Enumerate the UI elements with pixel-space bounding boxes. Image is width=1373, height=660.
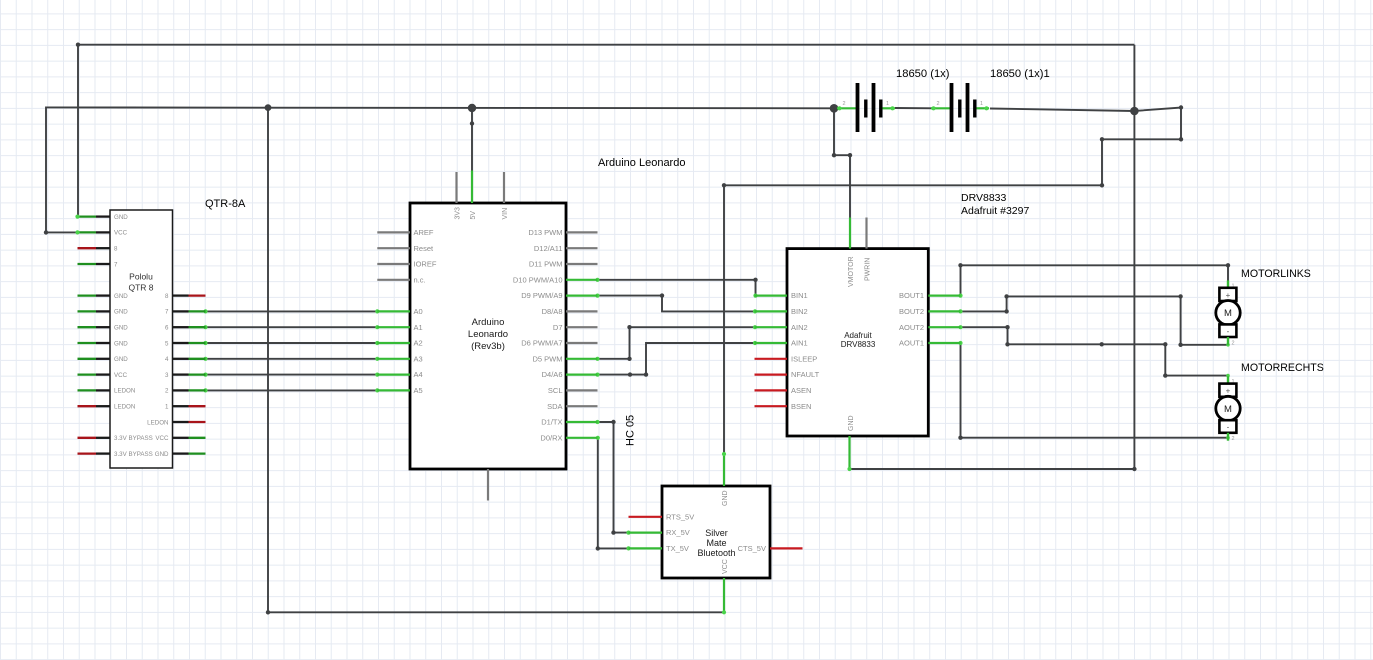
wire QTR pin 4 to Arduino A3 xyxy=(206,358,378,360)
pin BSEN (DRV left) xyxy=(755,402,812,411)
wire GND top horizontal xyxy=(78,44,1134,46)
svg-text:2: 2 xyxy=(1232,340,1235,346)
wire BOUT2 to motor left pin2 xyxy=(961,296,1229,344)
wire D4 to DRV AIN1 xyxy=(598,343,756,375)
svg-text:D0/RX: D0/RX xyxy=(540,433,562,442)
svg-text:SDA: SDA xyxy=(547,402,562,411)
svg-text:BIN2: BIN2 xyxy=(791,307,808,316)
svg-text:Adafruit: Adafruit xyxy=(844,331,872,340)
pin D4/A6 (Arduino right) xyxy=(542,370,598,379)
junction D5 wire corner b xyxy=(627,325,631,329)
svg-text:M: M xyxy=(1224,404,1232,415)
pin 5 (QTR right row 8) xyxy=(165,340,205,347)
QTR-8A sensor module (Pololu QTR 8) xyxy=(110,210,173,468)
svg-text:CTS_5V: CTS_5V xyxy=(738,544,766,553)
svg-text:D13 PWM: D13 PWM xyxy=(528,228,562,237)
pin D8/A8 (Arduino right) xyxy=(542,307,598,316)
svg-text:LEDON: LEDON xyxy=(114,404,135,411)
svg-text:2: 2 xyxy=(843,101,846,107)
svg-text:VCC: VCC xyxy=(114,372,128,379)
pin 3V3 (Arduino top) xyxy=(455,172,462,220)
battery BT1 18650 (1x) xyxy=(837,83,895,132)
wire 5V drop to Arduino xyxy=(471,108,473,171)
svg-text:AOUT2: AOUT2 xyxy=(899,323,924,332)
junction green D10 tip xyxy=(595,278,599,282)
junction green AOUT1 tip xyxy=(958,341,962,345)
svg-text:PWRIN: PWRIN xyxy=(865,258,872,281)
pin SDA (Arduino right) xyxy=(547,402,597,411)
junction GND jog corner a xyxy=(1179,105,1183,109)
svg-text:QTR 8: QTR 8 xyxy=(128,283,153,293)
pin VCC (HC05 bottom) xyxy=(722,559,729,614)
svg-text:D9 PWM/A9: D9 PWM/A9 xyxy=(521,291,562,300)
wire QTR pin 3 to Arduino A4 xyxy=(206,374,378,376)
pin GND (QTR left row 0) xyxy=(75,214,128,221)
junction 5V wire mid bendpoint xyxy=(470,121,474,125)
svg-text:MOTORLINKS: MOTORLINKS xyxy=(1241,268,1311,280)
pin A2 (Arduino left) xyxy=(377,339,422,348)
svg-text:A1: A1 xyxy=(414,323,423,332)
pin A3 (Arduino left) xyxy=(377,354,422,363)
svg-text:ISLEEP: ISLEEP xyxy=(791,354,817,363)
svg-text:GND: GND xyxy=(114,293,128,300)
junction D9 wire corner xyxy=(660,293,664,297)
wire GND jog right of batteries xyxy=(724,108,1181,455)
junction D0/RX wire corner xyxy=(596,546,600,550)
junction battery1 minus node xyxy=(830,104,839,113)
svg-text:D7: D7 xyxy=(553,323,563,332)
junction green Arduino A3 tip xyxy=(375,357,379,361)
svg-text:BSEN: BSEN xyxy=(791,402,811,411)
junction D1/TX wire corner a xyxy=(611,420,615,424)
wire battery1 to DRV VMOTOR xyxy=(834,108,850,217)
svg-text:+: + xyxy=(1226,291,1231,300)
svg-text:-: - xyxy=(1227,423,1230,432)
svg-text:Arduino Leonardo: Arduino Leonardo xyxy=(598,157,685,169)
pin 5V (Arduino top) xyxy=(470,171,477,220)
svg-text:Adafruit #3297: Adafruit #3297 xyxy=(961,205,1029,217)
svg-text:5: 5 xyxy=(165,340,169,347)
pin BOUT1 (DRV right) xyxy=(899,291,961,300)
junction green D9 tip xyxy=(595,294,599,298)
junction VCC node at x268 xyxy=(265,104,272,111)
pin 7 (QTR right row 6) xyxy=(165,309,205,316)
pin 4 (QTR right row 9) xyxy=(165,356,205,363)
svg-text:A0: A0 xyxy=(414,307,423,316)
svg-text:+: + xyxy=(1226,387,1231,396)
junction green RX_5V tip xyxy=(626,531,630,535)
junction green Arduino A4 tip xyxy=(375,373,379,377)
wire QTR pin 6 to Arduino A1 xyxy=(206,326,378,328)
svg-text:7: 7 xyxy=(165,309,169,316)
svg-text:3: 3 xyxy=(165,372,169,379)
pin VCC (QTR right row 14) xyxy=(155,435,205,442)
svg-text:18650 (1x): 18650 (1x) xyxy=(896,68,950,80)
wire D0/RX to HC05 TX_5V xyxy=(598,438,629,549)
svg-text:GND: GND xyxy=(155,451,169,458)
svg-text:Pololu: Pololu xyxy=(129,272,153,282)
junction green BOUT2 tip xyxy=(958,309,962,313)
svg-text:D6 PWM/A7: D6 PWM/A7 xyxy=(521,339,562,348)
pin D5 PWM (Arduino right) xyxy=(533,354,598,363)
junction D10 wire corner xyxy=(753,278,757,282)
junction BOUT2 wire corner a xyxy=(1004,309,1008,313)
pin VCC (QTR left row 10) xyxy=(78,372,128,379)
pin GND (QTR left row 6) xyxy=(78,309,129,316)
svg-text:2: 2 xyxy=(937,101,940,107)
pin AOUT2 (DRV right) xyxy=(899,323,961,332)
wire GND long right vertical xyxy=(1133,45,1135,469)
pin D9 PWM/A9 (Arduino right) xyxy=(521,291,597,300)
svg-text:18650 (1x)1: 18650 (1x)1 xyxy=(990,68,1050,80)
junction BOUT1 wire corner a xyxy=(958,263,962,267)
junction green D0/RX tip xyxy=(596,436,600,440)
junction GND jog corner e xyxy=(722,183,726,187)
junction D4 wire corner xyxy=(644,372,648,376)
pin PWRIN (DRV top) xyxy=(865,218,872,282)
svg-text:Bluetooth: Bluetooth xyxy=(697,548,735,558)
junction green D1/TX tip xyxy=(595,420,599,424)
svg-text:QTR-8A: QTR-8A xyxy=(205,198,246,210)
pin NFAULT (DRV left) xyxy=(755,370,820,379)
pin 2 (QTR right row 11) xyxy=(165,388,205,395)
svg-text:1: 1 xyxy=(165,404,169,411)
svg-text:8: 8 xyxy=(114,246,118,253)
junction AOUT2 wire corner c xyxy=(1163,342,1167,346)
svg-text:GND: GND xyxy=(722,490,729,506)
pin 3.3V BYPASS (QTR left row 15) xyxy=(78,451,153,458)
pin GND (QTR right row 15) xyxy=(155,451,206,458)
svg-text:M: M xyxy=(1224,308,1232,319)
svg-text:AOUT1: AOUT1 xyxy=(899,339,924,348)
svg-text:D12/A11: D12/A11 xyxy=(534,244,563,253)
svg-text:BOUT2: BOUT2 xyxy=(899,307,924,316)
pin GND (HC05 top) xyxy=(722,452,729,506)
pin Reset (Arduino left) xyxy=(377,244,434,253)
wire AOUT1 to motor right pin2 xyxy=(961,343,1229,438)
svg-text:7: 7 xyxy=(114,261,118,268)
pin TX_5V (HC05 left) xyxy=(629,544,689,553)
pin GND (Arduino bottom) xyxy=(487,469,489,501)
svg-text:TX_5V: TX_5V xyxy=(666,544,689,553)
wire D9 to DRV BIN2 xyxy=(598,296,756,312)
svg-text:SCL: SCL xyxy=(548,386,563,395)
svg-text:GND: GND xyxy=(114,356,128,363)
svg-text:4: 4 xyxy=(165,356,169,363)
op-amp? no: Arduino Leonardo U2 (Rev3b) body xyxy=(410,203,566,469)
pin ASEN (DRV left) xyxy=(755,386,812,395)
wire VCC left drop to QTR VCC xyxy=(46,107,78,232)
pin BOUT2 (DRV right) xyxy=(899,307,961,316)
pin 1 (QTR right row 12) xyxy=(165,404,205,411)
svg-text:VMOTOR: VMOTOR xyxy=(848,256,855,287)
pin LEDON (QTR right row 13) xyxy=(147,419,205,426)
junction green BOUT1 tip xyxy=(958,294,962,298)
pin GND (QTR left row 7) xyxy=(78,325,129,332)
svg-text:2: 2 xyxy=(1232,436,1235,442)
junction green QTR pin 3 tip xyxy=(203,373,207,377)
svg-text:D5 PWM: D5 PWM xyxy=(533,354,563,363)
svg-text:AIN2: AIN2 xyxy=(791,323,808,332)
pin D10 PWM/A10 (Arduino right) xyxy=(513,275,598,284)
svg-text:n.c.: n.c. xyxy=(414,275,426,284)
pin GND (QTR left row 5) xyxy=(78,293,129,300)
svg-text:ASEN: ASEN xyxy=(791,386,811,395)
svg-text:Leonardo: Leonardo xyxy=(468,329,508,340)
svg-text:3.3V BYPASS: 3.3V BYPASS xyxy=(114,451,153,458)
svg-text:VCC: VCC xyxy=(114,230,128,237)
svg-text:1: 1 xyxy=(886,101,889,107)
pin 3 (QTR right row 10) xyxy=(165,372,205,379)
pin IOREF (Arduino left) xyxy=(377,260,437,269)
junction AOUT2 wire mid bendpoint xyxy=(1100,342,1104,346)
junction green D4 tip xyxy=(595,373,599,377)
svg-text:RTS_5V: RTS_5V xyxy=(666,512,694,521)
junction green D5 tip xyxy=(595,357,599,361)
svg-text:GND: GND xyxy=(114,309,128,316)
wire QTR pin 5 to Arduino A2 xyxy=(206,342,378,344)
svg-text:A5: A5 xyxy=(414,386,423,395)
junction green motor right pin1 tip xyxy=(1226,374,1230,378)
pin 7 (QTR left row 3) xyxy=(78,261,119,268)
svg-text:BOUT1: BOUT1 xyxy=(899,291,924,300)
junction VCC left corner xyxy=(44,230,48,234)
svg-text:NFAULT: NFAULT xyxy=(791,370,820,379)
pin AOUT1 (DRV right) xyxy=(899,339,961,348)
svg-text:3V3: 3V3 xyxy=(455,207,462,220)
svg-text:D1/TX: D1/TX xyxy=(541,418,562,427)
junction green QTR pin 4 tip xyxy=(203,357,207,361)
junction D5 wire corner a xyxy=(627,357,631,361)
pin CTS_5V (HC05 right) xyxy=(738,544,803,553)
wire GND bottom horizontal to DRV8833 GND xyxy=(850,468,1135,470)
pin 8 (QTR left row 2) xyxy=(78,246,119,253)
svg-text:5V: 5V xyxy=(470,211,477,220)
junction green TX_5V tip xyxy=(626,546,630,550)
pin A1 (Arduino left) xyxy=(377,323,422,332)
pin 6 (QTR right row 7) xyxy=(165,325,205,332)
motor M2 MOTORRECHTS xyxy=(1216,376,1240,442)
wire battery2 minus to GND node xyxy=(990,109,1134,112)
junction AOUT1 wire corner xyxy=(958,436,962,440)
svg-text:A2: A2 xyxy=(414,339,423,348)
junction green Arduino A1 tip xyxy=(375,325,379,329)
pin VMOTOR (DRV top) xyxy=(848,218,855,288)
wire D10 to DRV BIN1 xyxy=(598,280,756,296)
pin BIN1 (DRV left) xyxy=(755,291,808,300)
junction AOUT2 wire corner d xyxy=(1163,373,1167,377)
pin GND (DRV bottom) xyxy=(847,415,855,471)
junction green BIN1 tip xyxy=(753,294,757,298)
junction green QTR pin 5 tip xyxy=(203,341,207,345)
wire VCC long vertical to bottom xyxy=(267,108,269,613)
pin D13 PWM (Arduino right) xyxy=(528,228,597,237)
svg-text:Silver: Silver xyxy=(705,528,728,538)
wire battery1 plus to battery2 minus xyxy=(895,107,936,109)
junction VMOTOR wire corner b xyxy=(848,153,852,157)
svg-text:RX_5V: RX_5V xyxy=(666,528,690,537)
wire BOUT1 to motor left pin1 xyxy=(961,265,1229,295)
wire QTR pin 7 to Arduino A0 xyxy=(206,310,378,312)
junction GND jog corner c xyxy=(1100,137,1104,141)
svg-text:DRV8833: DRV8833 xyxy=(961,192,1006,204)
junction green QTR pin 2 tip xyxy=(203,388,207,392)
pin RTS_5V (HC05 left) xyxy=(629,512,695,521)
pin D11 PWM (Arduino right) xyxy=(529,260,598,269)
svg-text:AIN1: AIN1 xyxy=(791,339,808,348)
junction BOUT1 wire corner b xyxy=(1226,263,1230,267)
junction green Arduino A0 tip xyxy=(375,309,379,313)
pin BIN2 (DRV left) xyxy=(755,307,808,316)
pin LEDON (QTR left row 11) xyxy=(78,388,136,395)
junction green Arduino A2 tip xyxy=(375,341,379,345)
junction GND jog corner d xyxy=(1100,183,1104,187)
motor M1 MOTORLINKS xyxy=(1216,280,1240,346)
svg-text:AREF: AREF xyxy=(414,228,434,237)
svg-text:D8/A8: D8/A8 xyxy=(542,307,563,316)
junction D1/TX wire corner b xyxy=(611,530,615,534)
junction VCC bottom corner xyxy=(266,610,270,614)
pin D1/TX (Arduino right) xyxy=(541,418,597,427)
junction BOUT2 wire corner b xyxy=(1004,294,1008,298)
junction green QTR pin 7 tip xyxy=(203,309,207,313)
pin D12/A11 (Arduino right) xyxy=(534,244,598,253)
svg-text:A4: A4 xyxy=(414,370,423,379)
svg-text:VIN: VIN xyxy=(502,208,509,220)
pin VIN (Arduino top) xyxy=(502,172,509,220)
svg-text:GND: GND xyxy=(848,415,855,431)
motor driver U3 Adafruit DRV8833 body xyxy=(787,249,928,436)
svg-text:VCC: VCC xyxy=(155,435,169,442)
battery BT2 18650 (1x)1 xyxy=(931,83,989,132)
junction at GND bottom corner xyxy=(1132,467,1136,471)
svg-text:LEDON: LEDON xyxy=(114,388,135,395)
svg-text:D10 PWM/A10: D10 PWM/A10 xyxy=(513,275,563,284)
svg-text:GND: GND xyxy=(114,340,128,347)
junction green Arduino A5 tip xyxy=(375,388,379,392)
pin AREF (Arduino left) xyxy=(377,228,434,237)
svg-text:MOTORRECHTS: MOTORRECHTS xyxy=(1241,362,1324,374)
pin n.c. (Arduino left) xyxy=(377,275,425,284)
bluetooth module U4 Silver Mate body xyxy=(662,486,770,578)
pin ISLEEP (DRV left) xyxy=(755,354,818,363)
pin A4 (Arduino left) xyxy=(377,370,422,379)
pin D0/RX (Arduino right) xyxy=(540,433,597,442)
junction battery negative node xyxy=(1130,107,1139,116)
svg-text:IOREF: IOREF xyxy=(414,260,437,269)
junction AOUT2 wire corner b xyxy=(1005,342,1009,346)
pin D7 (Arduino right) xyxy=(553,323,598,332)
wire AOUT2 to motor right pin1 xyxy=(961,327,1229,375)
svg-text:Arduino: Arduino xyxy=(472,317,505,328)
junction D4 wire bendpoint xyxy=(628,372,632,376)
svg-text:GND: GND xyxy=(114,325,128,332)
svg-text:D11 PWM: D11 PWM xyxy=(529,260,563,269)
svg-text:6: 6 xyxy=(165,325,169,332)
junction green AIN2 tip xyxy=(753,325,757,329)
pin VCC (QTR left row 1) xyxy=(75,230,127,237)
svg-text:Reset: Reset xyxy=(414,244,435,253)
pin RX_5V (HC05 left) xyxy=(629,528,690,537)
junction green QTR pin 6 tip xyxy=(203,325,207,329)
pin A5 (Arduino left) xyxy=(377,386,422,395)
wire D5 to DRV AIN2 xyxy=(598,327,756,359)
pin D6 PWM/A7 (Arduino right) xyxy=(521,339,597,348)
wire QTR pin 2 to Arduino A5 xyxy=(206,389,378,391)
pin 8 (QTR right row 5) xyxy=(165,293,205,300)
svg-text:BIN1: BIN1 xyxy=(791,291,808,300)
junction GND jog corner b xyxy=(1179,137,1183,141)
pin A0 (Arduino left) xyxy=(377,307,422,316)
pin GND (QTR left row 8) xyxy=(78,340,129,347)
pin 3.3V BYPASS (QTR left row 14) xyxy=(78,435,153,442)
wire GND left vertical to QTR GND xyxy=(77,45,79,217)
svg-text:HC 05: HC 05 xyxy=(625,415,637,446)
junction BOUT2 wire corner d xyxy=(1178,343,1182,347)
junction green AIN1 tip xyxy=(753,341,757,345)
svg-text:-: - xyxy=(1227,327,1230,336)
wire VCC bottom horizontal to HC05 xyxy=(268,611,724,613)
pin LEDON (QTR left row 12) xyxy=(78,404,136,411)
pin AIN1 (DRV left) xyxy=(755,339,808,348)
junction BOUT2 wire corner c xyxy=(1178,294,1182,298)
pin AIN2 (DRV left) xyxy=(755,323,808,332)
svg-text:(Rev3b): (Rev3b) xyxy=(471,341,505,352)
svg-text:D4/A6: D4/A6 xyxy=(542,370,563,379)
junction VCC node at 5V xyxy=(468,104,476,112)
svg-text:Mate: Mate xyxy=(706,538,726,548)
junction green AOUT2 tip xyxy=(958,325,962,329)
wire VCC top horizontal xyxy=(46,106,834,109)
wire D1/TX to HC05 RX_5V xyxy=(598,422,629,533)
junction at top-left corner xyxy=(76,43,80,47)
junction VMOTOR wire corner a xyxy=(832,153,836,157)
svg-text:A3: A3 xyxy=(414,354,423,363)
svg-text:3.3V BYPASS: 3.3V BYPASS xyxy=(114,435,153,442)
junction green BIN2 tip xyxy=(753,309,757,313)
svg-text:GND: GND xyxy=(114,214,128,221)
svg-text:1: 1 xyxy=(980,101,983,107)
svg-text:DRV8833: DRV8833 xyxy=(841,340,876,349)
svg-text:LEDON: LEDON xyxy=(147,419,168,426)
junction AOUT2 wire corner a xyxy=(1005,325,1009,329)
svg-text:8: 8 xyxy=(165,293,169,300)
pin GND (QTR left row 9) xyxy=(78,356,129,363)
junction green motor right pin2 tip xyxy=(1226,436,1230,440)
junction green motor left pin2 tip xyxy=(1226,343,1230,347)
svg-text:2: 2 xyxy=(165,388,169,395)
svg-text:VCC: VCC xyxy=(722,559,729,574)
pin SCL (Arduino right) xyxy=(548,386,598,395)
